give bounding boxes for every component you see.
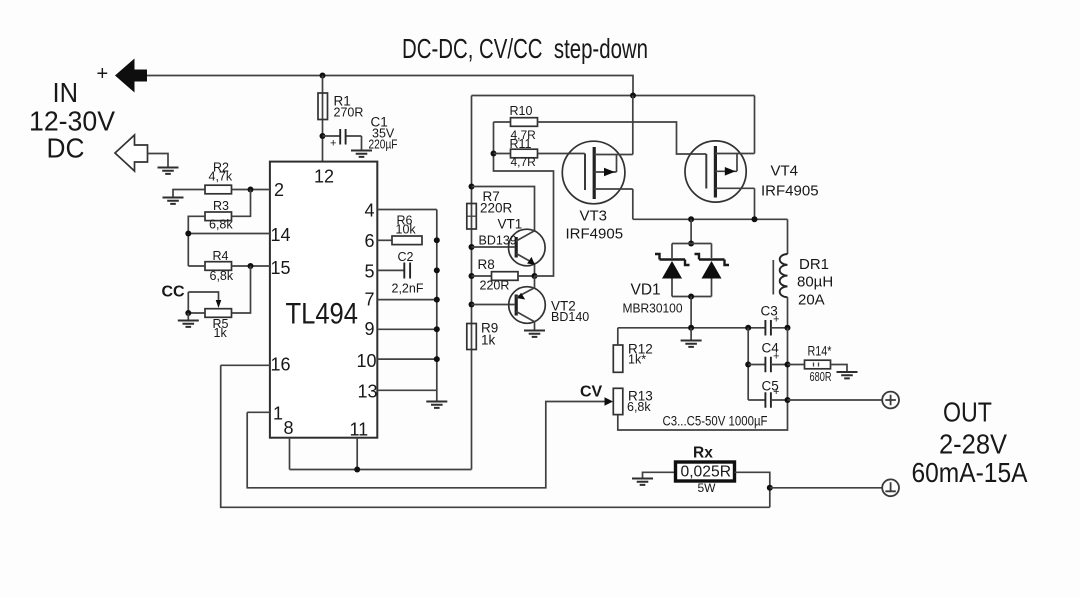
svg-text:16: 16 <box>271 355 291 375</box>
wire R5 left to ground node <box>188 292 205 313</box>
resistor R1 <box>318 93 363 120</box>
ground IC bus <box>426 402 447 408</box>
svg-text:C4: C4 <box>762 341 780 356</box>
ground R2 <box>163 198 184 204</box>
wire secondary +V rail <box>472 95 755 97</box>
wire driver rail vertical <box>471 96 473 470</box>
wire pin1 to CV line <box>247 402 605 488</box>
wire ground bus <box>618 327 766 329</box>
wire R2 to pin 2 <box>232 189 251 191</box>
svg-text:BD139: BD139 <box>479 234 517 248</box>
wire ground bus right of IC <box>436 210 438 401</box>
svg-text:1k: 1k <box>481 333 496 348</box>
svg-text:220R: 220R <box>480 279 510 293</box>
node pin5 bus <box>434 267 440 273</box>
node pin9 bus <box>434 326 440 332</box>
svg-text:MBR30100: MBR30100 <box>623 302 683 316</box>
svg-text:6,8k: 6,8k <box>627 400 651 414</box>
input minus arrow (outline) <box>115 135 148 171</box>
resistor R11 <box>494 137 538 169</box>
resistor R10 <box>494 104 538 142</box>
node ground bus VD1 <box>688 325 694 331</box>
node VD1 bottom <box>688 294 694 300</box>
capacitor C1 <box>323 115 398 152</box>
ground VT2 collector <box>524 331 545 337</box>
pin 10 <box>357 351 437 371</box>
node R1 tap <box>320 73 326 79</box>
wire VD1 to ground bus <box>690 297 692 328</box>
svg-text:80µH: 80µH <box>797 274 833 291</box>
wire R4 right to pin 15 <box>232 265 251 267</box>
wire VT1 base <box>472 246 515 248</box>
resistor R14 <box>788 344 848 385</box>
svg-text:CV: CV <box>580 384 603 401</box>
pin 8 <box>284 418 294 470</box>
pin 6 <box>365 231 393 251</box>
node pin14 junction <box>185 231 191 237</box>
pin 7 <box>365 290 437 310</box>
node DR1 bottom junction <box>785 325 791 331</box>
wire emitters to gate resistors <box>494 122 554 276</box>
wire OUT- <box>770 487 882 489</box>
resistor R6 <box>392 214 422 245</box>
wire R3 left rail <box>188 216 205 266</box>
svg-text:0,025R: 0,025R <box>681 464 732 481</box>
svg-text:4,7R: 4,7R <box>511 155 537 169</box>
node current sense <box>767 485 773 491</box>
svg-text:4,7k: 4,7k <box>209 170 233 184</box>
svg-text:680R: 680R <box>810 370 832 384</box>
svg-text:15: 15 <box>271 258 291 278</box>
svg-text:VT1: VT1 <box>498 217 523 232</box>
capacitor C2 <box>392 250 424 296</box>
svg-text:CC: CC <box>162 284 186 301</box>
svg-text:20A: 20A <box>798 292 825 309</box>
svg-text:10k: 10k <box>396 223 417 237</box>
svg-text:4: 4 <box>365 201 375 221</box>
terminal OUT- <box>882 479 899 496</box>
svg-text:12: 12 <box>314 167 334 187</box>
node pin2 junction <box>248 187 254 193</box>
potentiometer R5 <box>188 292 231 340</box>
node rail junction <box>630 93 636 99</box>
MOSFET VT3 <box>562 141 633 242</box>
node C4 branch <box>745 325 751 331</box>
inductor DR1 <box>773 219 833 327</box>
pin 2 <box>251 180 285 200</box>
svg-text:2: 2 <box>274 180 284 200</box>
IC U1 TL494 body <box>270 162 377 438</box>
wire output right loop <box>618 328 788 430</box>
svg-text:R3: R3 <box>213 199 229 213</box>
node pin 11 junction <box>354 467 360 473</box>
svg-text:VT4: VT4 <box>771 163 799 180</box>
transistor VT2 <box>509 276 590 330</box>
svg-text:DR1: DR1 <box>799 256 829 273</box>
svg-text:1k*: 1k* <box>628 353 646 367</box>
svg-text:VD1: VD1 <box>631 282 661 299</box>
svg-text:DC-DC, CV/CC step-down: DC-DC, CV/CC step-down <box>402 33 648 64</box>
wire VD1 ground stem <box>690 328 692 340</box>
wire pin16 to current sense bottom bus <box>221 365 770 507</box>
pin 1 <box>247 404 283 424</box>
diode VD1 <box>623 244 730 316</box>
resistor R2 <box>205 161 233 194</box>
svg-text:220µF: 220µF <box>369 138 398 152</box>
svg-text:2,2nF: 2,2nF <box>392 282 424 296</box>
ground R14 <box>837 372 858 378</box>
resistor R7 <box>467 189 513 229</box>
wire pins 8-11 to R9 bottom <box>290 469 472 471</box>
ground input minus <box>158 168 179 174</box>
node pin7 bus <box>434 297 440 303</box>
svg-text:R14*: R14* <box>808 344 833 359</box>
svg-text:+: + <box>97 63 109 85</box>
wire R12 to R13 <box>617 328 619 345</box>
wire R5 node to ground <box>187 313 189 320</box>
node emitters junction <box>532 273 538 279</box>
wire R4 left <box>188 265 205 267</box>
capacitor C3 <box>761 304 780 336</box>
svg-text:11: 11 <box>350 420 369 440</box>
svg-text:13: 13 <box>358 382 378 402</box>
ground VD1 <box>681 341 702 347</box>
svg-text:6,8k: 6,8k <box>209 218 233 232</box>
svg-text:R4: R4 <box>213 249 229 263</box>
svg-text:R10: R10 <box>510 104 533 118</box>
svg-text:TL494: TL494 <box>286 298 359 331</box>
svg-text:R11: R11 <box>510 137 532 151</box>
terminal OUT+ <box>882 392 899 409</box>
wire R10 to VT4 gate <box>538 122 707 154</box>
pin 9 <box>365 319 437 339</box>
pin 5 <box>365 262 405 282</box>
node VT2 base tap <box>469 302 475 308</box>
wire C3 right <box>771 327 788 329</box>
svg-text:8: 8 <box>284 418 294 438</box>
wire R11 to VT3 gate <box>538 153 585 155</box>
wire VT1 collector <box>472 187 535 231</box>
wire Rx right down <box>735 472 770 507</box>
wire VT4 drain down <box>754 188 756 219</box>
node VT4 drain junction <box>752 216 758 222</box>
resistor R12 <box>613 342 652 373</box>
pin 13 <box>358 382 437 402</box>
svg-text:IRF4905: IRF4905 <box>566 226 624 243</box>
node C1 tap <box>320 133 326 139</box>
node VD1 top <box>688 241 694 247</box>
node R14 junction <box>785 362 791 368</box>
svg-text:5W: 5W <box>698 481 717 495</box>
svg-text:+: + <box>330 138 336 150</box>
wire VD1 riser <box>690 219 692 243</box>
svg-text:1k: 1k <box>214 326 228 340</box>
svg-text:9: 9 <box>365 319 375 339</box>
svg-text:6,8k: 6,8k <box>210 269 234 283</box>
node VT1 collector tap <box>469 184 475 190</box>
svg-text:R8: R8 <box>478 257 495 272</box>
node OUT+ junction <box>785 397 791 403</box>
svg-text:14: 14 <box>271 225 291 245</box>
ground C1 <box>351 151 372 157</box>
pin 4 <box>365 201 437 221</box>
CV arrowhead <box>605 397 614 405</box>
svg-text:IN: IN <box>53 77 79 108</box>
resistor R8 <box>472 257 535 293</box>
ground Rx <box>632 479 653 485</box>
capacitor C5 <box>748 379 787 408</box>
transistor VT1 <box>479 217 546 277</box>
svg-text:1: 1 <box>273 404 283 424</box>
svg-text:5: 5 <box>365 262 375 282</box>
pin 14 <box>188 225 290 245</box>
potentiometer R13 <box>613 388 652 414</box>
wire R2 left to ground <box>173 190 205 197</box>
svg-text:C2: C2 <box>398 250 414 264</box>
svg-text:270R: 270R <box>334 106 364 120</box>
node pin10 bus <box>434 356 440 362</box>
wire VT2 base <box>472 304 515 306</box>
svg-text:10: 10 <box>357 351 377 371</box>
node R5 ground junction <box>185 310 191 316</box>
svg-text:C5: C5 <box>762 379 779 394</box>
svg-text:BD140: BD140 <box>551 310 589 324</box>
wire drain bus <box>633 218 788 220</box>
svg-text:6: 6 <box>365 231 375 251</box>
shunt resistor Rx <box>676 445 735 496</box>
wire VT3 source to rail <box>632 96 634 155</box>
node pin6 bus <box>434 237 440 243</box>
svg-text:OUT: OUT <box>943 397 992 428</box>
wire VT3 drain down <box>632 189 634 219</box>
pin 16 <box>221 355 291 375</box>
node R8 left tap <box>469 273 475 279</box>
capacitor C4 <box>748 341 787 373</box>
node VD1 drain tap <box>688 216 694 222</box>
pin 15 <box>251 258 291 278</box>
svg-text:C3...C5-50V 1000µF: C3...C5-50V 1000µF <box>663 414 768 429</box>
resistor R9 <box>467 321 498 350</box>
node VT1 base tap <box>469 244 475 250</box>
svg-text:220R: 220R <box>480 201 513 216</box>
node C4 junction <box>745 362 751 368</box>
ground R5 <box>178 321 199 327</box>
resistor R4 <box>205 249 234 283</box>
wire input minus to ground <box>148 154 169 167</box>
wire main +V rail <box>147 76 633 96</box>
resistor R3 <box>205 199 233 232</box>
input plus arrow (filled) <box>115 59 147 93</box>
wire VT4 source to rail <box>754 96 756 154</box>
MOSFET VT4 <box>685 141 819 202</box>
svg-text:7: 7 <box>365 290 375 310</box>
svg-text:Rx: Rx <box>693 445 713 462</box>
svg-text:60mA-15A: 60mA-15A <box>912 457 1029 488</box>
svg-text:2-28V: 2-28V <box>939 429 1008 460</box>
svg-text:IRF4905: IRF4905 <box>761 183 819 200</box>
node pin15 junction <box>248 263 254 269</box>
svg-text:VT3: VT3 <box>580 208 608 225</box>
wire R1 branch down to pin 12 <box>322 76 324 162</box>
wire Rx left to ground <box>643 472 676 477</box>
node gate resistors junction <box>491 151 497 157</box>
wire OUT+ <box>788 399 883 401</box>
svg-text:C3: C3 <box>761 304 778 319</box>
wire C4-C5 branch riser <box>747 328 749 400</box>
pin 11 <box>350 420 369 470</box>
wire R3 right up to pin2 node <box>232 190 251 217</box>
wire pin15 node down to R5 <box>232 266 251 313</box>
svg-text:DC: DC <box>47 133 85 164</box>
